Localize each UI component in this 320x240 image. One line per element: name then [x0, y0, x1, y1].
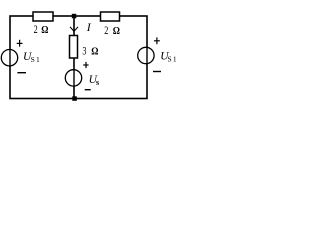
svg-text:s: s	[96, 78, 99, 87]
svg-text:S1: S1	[31, 55, 41, 64]
svg-text:2: 2	[104, 25, 108, 38]
svg-text:Ω: Ω	[91, 46, 98, 58]
svg-text:3: 3	[82, 45, 86, 58]
svg-text:S1: S1	[168, 55, 178, 64]
svg-text:2: 2	[34, 24, 38, 37]
svg-text:Ω: Ω	[113, 25, 120, 37]
svg-text:Ω: Ω	[41, 24, 48, 36]
